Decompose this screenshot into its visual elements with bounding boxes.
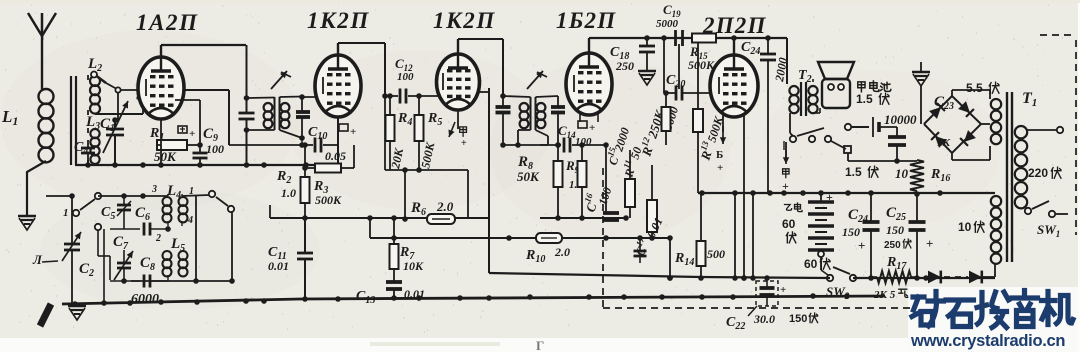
wire L5 bottom [131,280,196,282]
coil L2 [90,76,100,86]
wire T2 secondary to speaker [812,79,814,82]
svg-text:2.0: 2.0 [436,199,454,214]
wire switch to R16 [847,153,849,161]
wire L2 top to switch [94,74,96,76]
svg-text:50К: 50К [517,169,540,184]
dashed link [944,276,968,278]
wire L4 L5 right side [195,196,197,281]
filament mark tube4 [578,121,587,128]
wire bridge to winding 5.5V [981,123,990,125]
svg-text:100: 100 [397,71,414,83]
wire T1 primary bottom [1029,210,1031,211]
filament mark tube2 [339,124,348,131]
tube V4 1Б2П [566,53,612,115]
svg-text:1А2П: 1А2П [136,10,199,35]
wire tube4 top [588,38,590,53]
text battery A label [858,82,865,92]
tube V2 1К2П [315,55,361,117]
resistor R3 500K [315,164,341,173]
transformer T1 core [1006,92,1008,262]
svg-text:6000: 6000 [131,292,159,307]
svg-text:60: 60 [804,257,818,271]
svg-text:+: + [350,126,356,138]
svg-text:0.01: 0.01 [268,259,289,273]
ground under C18 [638,70,656,73]
tube V5 2П2П [710,55,758,117]
tap 220V [1027,129,1056,131]
svg-text:10000: 10000 [884,112,917,127]
top bus right [589,37,787,39]
dashed enclosure [1040,34,1076,36]
svg-text:+: + [926,236,933,251]
winding T1 primary [1015,126,1027,138]
switch SW1 [1025,208,1031,214]
svg-text:1К2П: 1К2П [307,8,370,33]
wire to winding 10V [983,276,995,278]
resistor R15 500K [692,34,716,43]
svg-text:150: 150 [842,225,860,239]
svg-text:1.5: 1.5 [845,165,862,179]
svg-text:Л: Л [32,252,43,267]
wire switch node to tube1 grid [121,89,142,91]
svg-text:+: + [858,238,865,253]
wire x670 vertical [669,238,671,278]
wire C19 to C20 [678,44,680,89]
switch SW2 [827,275,833,281]
svg-text:Г: Г [536,338,544,352]
terminal 1.5V tap [845,124,851,130]
wire tube2 top [337,43,339,55]
svg-text:10: 10 [958,220,972,234]
wire tube2 bottom to bus [337,117,339,165]
long bus y193 [698,192,995,194]
svg-text:+: + [589,122,595,134]
capacitor C3 [140,87,146,93]
IF transformer 1 [274,97,276,130]
svg-text:10: 10 [895,166,909,181]
wire tube3 top [457,39,459,54]
terminal mid left [95,224,101,230]
svg-text:500К: 500К [315,193,342,207]
filament arrow tube3 [449,122,455,137]
capacitor C16 100 [605,145,607,212]
svg-text:+: + [780,284,786,296]
wire tube1 anode right [184,89,229,91]
resistor R13 [697,43,699,109]
ground bottom left [68,305,86,308]
wire y238 bus [370,237,646,239]
switch osc right [209,191,215,197]
svg-text:1Б2П: 1Б2П [556,8,616,33]
wire mid bus y218 [270,217,489,219]
tube V1 1А2П [138,57,184,119]
trimmer capacitor IF1 [301,97,303,112]
wire IF2 bottom to grid wire [503,144,548,146]
svg-text:250: 250 [884,240,901,251]
svg-text:100: 100 [206,142,224,156]
bus y278 power [489,273,830,278]
svg-text:1.0: 1.0 [281,186,296,200]
switch contacts filament [790,136,796,142]
tube V3 1К2П [437,54,480,110]
svg-text:4: 4 [187,215,193,226]
wire L1 bottom [27,161,46,215]
svg-text:0.05: 0.05 [325,149,346,163]
wire tube5 cathode [722,115,724,132]
svg-text:60: 60 [782,217,796,231]
svg-text:+: + [717,162,723,174]
wire tube1 cathode to R1 C9 [175,99,200,101]
wire IF1 to tube2 grid [302,96,319,98]
svg-text:2.0: 2.0 [554,245,570,259]
winding T1 10V [991,196,1001,206]
wire tube1 top to HT [160,45,162,58]
ink mark I [40,304,51,326]
wire tube5 pin down [743,115,745,278]
wire x405 drop [404,170,406,219]
svg-text:Б: Б [716,149,723,161]
wire x246 with capacitor [246,45,248,112]
wire bus y218 right part [540,217,626,219]
wire R4 R5 bottom [385,169,468,171]
wire switch node down to C1 [117,93,119,121]
bottom ground bus [62,296,885,304]
wire tube5 top [733,38,735,55]
svg-text:+: + [189,128,195,140]
ground top right [912,71,930,74]
wire x753 vertical [752,193,754,278]
wire top corner to T2 [786,38,788,84]
battery cell 1.5V [872,117,874,137]
trimmer capacitor IF2 right [536,96,559,97]
wire C1 to grid node [115,119,118,121]
svg-text:1: 1 [63,207,69,219]
wire switch row [98,195,168,197]
IF transformer 2 [530,97,532,130]
svg-text:www.crystalradio.cn: www.crystalradio.cn [910,332,1065,350]
wire x624 vertical [623,238,625,297]
wire C10 row [229,144,302,146]
shunt capacitor IF2 left [502,39,504,96]
coil L3 [90,129,99,138]
capacitor C22 30.0 150V [756,281,778,306]
wire T2 primary bottom [789,113,791,133]
text battery B label [785,205,792,211]
wire x784 down from switch [783,141,785,150]
wire tube4 bottom pins [579,112,581,122]
svg-text:2: 2 [155,233,161,244]
svg-text:2П2П: 2П2П [702,13,767,38]
svg-text:150: 150 [789,313,807,325]
paper shading [0,30,300,210]
bottom wire of input stage [75,164,338,166]
wire x468 drop [467,170,469,219]
switch osc left [95,193,101,199]
filament mark tube1 [178,126,187,133]
svg-text:500: 500 [707,247,725,261]
svg-text:1.5: 1.5 [856,92,873,106]
svg-text:30.0: 30.0 [753,312,775,326]
svg-text:1К2П: 1К2П [433,8,496,33]
svg-text:3: 3 [151,184,157,195]
wire tube3 bottom [457,110,459,129]
svg-text:+: + [461,138,467,149]
coil L1 [39,89,54,104]
core bars antenna transformer [70,76,72,165]
svg-text:500К: 500К [688,58,715,72]
wire tube3 right to x489 [479,91,489,93]
trimmer C7 [123,250,125,262]
switch S1a [91,72,97,78]
winding T1 5.5V [991,99,1001,109]
svg-text:50К: 50К [154,149,177,164]
faint mark [370,342,500,346]
wire L2 bottom [95,113,143,115]
svg-text:150: 150 [886,223,904,237]
antenna [28,13,42,36]
wire x735 vertical [734,193,736,278]
bridge rectifier [924,96,981,153]
speaker [818,62,854,79]
svg-text:5.5: 5.5 [966,81,983,95]
diode D2 [969,271,982,284]
svg-text:10К: 10К [403,259,424,273]
arrow battery plus A [785,142,787,158]
svg-text:5000: 5000 [656,18,679,30]
diode D1 [928,271,941,284]
watermark text kuangshi shouyinji [912,291,1073,328]
wire battery to SW2 [820,257,822,270]
svg-text:220: 220 [1028,166,1048,180]
svg-text:250: 250 [615,59,634,73]
ground under L1 [18,215,36,218]
